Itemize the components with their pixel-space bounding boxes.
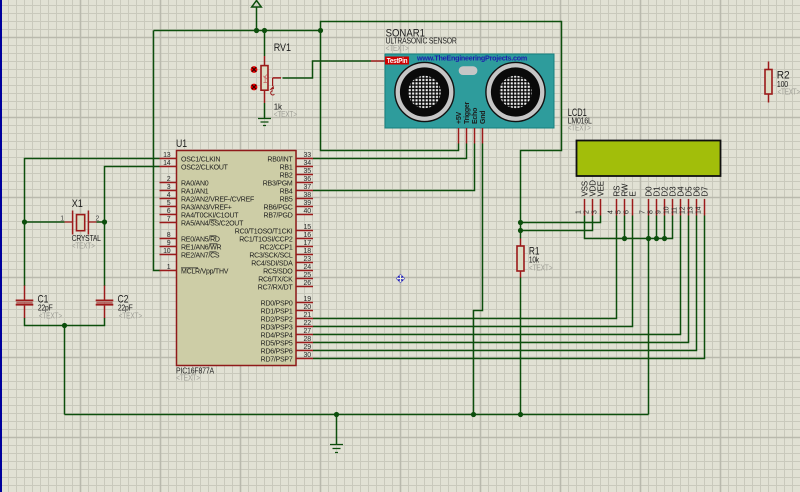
wire top rail y=30: [154, 30, 321, 32]
junction rail/ground symbol: [334, 412, 339, 417]
wire MCLR pull-up x=153: [154, 31, 161, 271]
svg-text:<TEXT>: <TEXT>: [568, 124, 591, 133]
U1 pin 39 RB6/PGC: [264, 200, 313, 212]
svg-text:36: 36: [304, 176, 312, 183]
svg-text:RA1/AN1: RA1/AN1: [181, 189, 209, 196]
LCD pin 12 D5: [680, 186, 694, 216]
svg-text:8: 8: [167, 232, 171, 239]
svg-text:RA4/T0CKI/C1OUT: RA4/T0CKI/C1OUT: [181, 213, 239, 220]
svg-text:30: 30: [304, 352, 312, 359]
U1 pin 22 RD3/PSP3: [261, 320, 313, 332]
sonar right transducer: [486, 62, 545, 121]
LCD pin 11 D4: [672, 186, 686, 216]
U1 pin 21 RD2/PSP2: [261, 312, 313, 324]
svg-text:OSC1/CLKIN: OSC1/CLKIN: [181, 157, 220, 164]
LCD pin 9 D2: [656, 186, 670, 216]
junction gnd bus RW: [622, 236, 627, 241]
svg-text:+5V: +5V: [456, 112, 463, 124]
svg-text:5: 5: [616, 210, 623, 214]
svg-text:RC0/T1OSO/T1CKI: RC0/T1OSO/T1CKI: [235, 229, 293, 236]
svg-text:RV1: RV1: [274, 42, 291, 54]
wire VEE to supply node: [521, 216, 601, 223]
capacitor C1: [16, 286, 34, 319]
junction supply VDD: [518, 228, 523, 233]
junction dot rail/power: [254, 28, 259, 33]
svg-text:VEE: VEE: [597, 181, 606, 196]
svg-text:18: 18: [304, 248, 312, 255]
U1 pin 8 RE0/AN5/RD: [160, 232, 220, 244]
sonar oscillator pill: [459, 66, 478, 75]
svg-text:25: 25: [304, 272, 312, 279]
svg-text:3: 3: [167, 184, 171, 191]
svg-text:24: 24: [304, 264, 312, 271]
potentiometer RV1: [261, 56, 281, 103]
svg-text:<TEXT>: <TEXT>: [778, 88, 800, 97]
ground symbol bottom center: [330, 415, 343, 453]
svg-text:19: 19: [304, 296, 312, 303]
svg-text:15: 15: [304, 224, 312, 231]
wire Trigger to RB0: [313, 144, 467, 159]
svg-text:34: 34: [304, 160, 312, 167]
svg-text:1: 1: [576, 210, 583, 214]
wire +5V supply to sonar: [321, 31, 459, 151]
U1 pin 29 RD6/PSP6: [261, 344, 313, 356]
U1 pin 5 RA3/AN3/VREF+: [160, 200, 232, 212]
svg-text:U1: U1: [176, 138, 187, 150]
U1 pin 25 RC6/TX/CK: [258, 272, 313, 284]
svg-text:RC4/SDI/SDA: RC4/SDI/SDA: [251, 261, 293, 268]
svg-text:RE1/AN6/WR: RE1/AN6/WR: [181, 245, 221, 252]
wire ground rail bottom: [65, 414, 649, 416]
svg-text:20: 20: [304, 304, 312, 311]
svg-text:2: 2: [167, 176, 171, 183]
junction supply VEE: [518, 220, 523, 225]
svg-text:26: 26: [304, 280, 312, 287]
svg-text:7: 7: [640, 210, 647, 214]
wire VDD to supply node: [521, 216, 593, 231]
svg-text:MCLR/Vpp/THV: MCLR/Vpp/THV: [181, 269, 229, 276]
junction gnd bus D0: [646, 236, 651, 241]
svg-text:Echo: Echo: [472, 108, 479, 124]
wire D7 to RD7 pin30: [313, 216, 705, 359]
U1 pin 2 RA0/AN0: [160, 176, 209, 188]
ground RV1: [258, 119, 271, 126]
svg-text:9: 9: [167, 240, 171, 247]
pin stub TestPin: [371, 60, 385, 62]
svg-text:39: 39: [304, 200, 312, 207]
svg-text:RB3/PGM: RB3/PGM: [263, 181, 293, 188]
resistor R2: [765, 62, 772, 103]
sonar pin stub Trigger: [466, 128, 468, 144]
U1 pin 27 RD4/PSP4: [261, 328, 313, 340]
U1 pin 36 RB3/PGM: [263, 176, 313, 188]
U1 pin 30 RD7/PSP7: [261, 352, 313, 364]
junction rail/sonar gnd: [471, 412, 476, 417]
svg-text:<TEXT>: <TEXT>: [39, 312, 63, 321]
wire D5 to RD5 pin28: [313, 216, 689, 343]
svg-text:E: E: [629, 191, 638, 196]
U1 pin 9 RE1/AN6/WR: [160, 240, 222, 252]
U1 pin 24 RC5/SDO: [263, 264, 313, 276]
svg-text:21: 21: [304, 312, 312, 319]
svg-text:RC5/SDO: RC5/SDO: [263, 269, 293, 276]
U1 pin 6 RA4/T0CKI/C1OUT: [160, 208, 240, 220]
wire RV1 top from rail: [264, 31, 266, 57]
LCD pin 1 VSS: [576, 181, 590, 215]
svg-text:12: 12: [680, 206, 687, 214]
U1 pin 28 RD5/PSP5: [261, 336, 313, 348]
svg-text:RC3/SCK/SCL: RC3/SCK/SCL: [249, 253, 293, 260]
svg-text:6: 6: [624, 210, 631, 214]
svg-text:RD3/PSP3: RD3/PSP3: [261, 325, 293, 332]
wire D2 to gnd bus: [664, 216, 666, 239]
LCD pin 10 D3: [664, 186, 678, 216]
wire C1 C2 bottoms joined: [25, 318, 105, 326]
svg-text:RB4: RB4: [280, 189, 293, 196]
svg-text:<TEXT>: <TEXT>: [529, 264, 553, 273]
svg-text:6: 6: [167, 208, 171, 215]
svg-text:RD5/PSP5: RD5/PSP5: [261, 341, 293, 348]
svg-text:27: 27: [304, 328, 312, 335]
LCD pin 8 D1: [648, 186, 662, 216]
sonar pin stub +5V: [458, 128, 460, 144]
svg-text:RC1/T1OSI/CCP2: RC1/T1OSI/CCP2: [239, 237, 293, 244]
svg-text:9: 9: [656, 210, 663, 214]
wire sonar Gnd to rail: [474, 144, 483, 415]
svg-text:13: 13: [688, 206, 695, 214]
svg-text:14: 14: [163, 160, 171, 167]
wire OSC1 pin13 to crystal/C1: [25, 159, 160, 223]
LCD pin 7 D0: [640, 186, 654, 216]
svg-text:17: 17: [304, 240, 312, 247]
U1 pin 18 RC3/SCK/SCL: [249, 248, 313, 260]
svg-text:www.TheEngineeringProjects.com: www.TheEngineeringProjects.com: [416, 56, 527, 63]
svg-text:40: 40: [304, 208, 312, 215]
power symbol +5V arrow: [252, 1, 262, 31]
svg-text:2: 2: [584, 210, 591, 214]
U1 pin 15 RC0/T1OSO/T1CKI: [235, 224, 313, 236]
U1 pin 4 RA2/AN2/VREF-/CVREF: [160, 192, 255, 204]
U1 pin 1 MCLR/Vpp/THV: [160, 264, 229, 276]
sonar pin stub Echo: [474, 128, 476, 144]
wire D6 to RD6 pin29: [313, 216, 697, 351]
svg-text:<TEXT>: <TEXT>: [72, 242, 95, 251]
wire RS to RD2 pin21: [313, 216, 617, 319]
svg-text:RB1: RB1: [280, 165, 293, 172]
U1 pin 13 OSC1/CLKIN: [160, 152, 221, 164]
svg-text:4: 4: [608, 210, 615, 214]
svg-text:RC6/TX/CK: RC6/TX/CK: [258, 277, 293, 284]
svg-text:13: 13: [163, 152, 171, 159]
wire VSS to gnd bus: [585, 216, 673, 239]
svg-text:RD7/PSP7: RD7/PSP7: [261, 357, 293, 364]
svg-text:11: 11: [672, 207, 679, 214]
svg-text:RB2: RB2: [280, 173, 293, 180]
U1 pin 16 RC1/T1OSI/CCP2: [239, 232, 313, 244]
svg-text:TestPin: TestPin: [387, 58, 408, 65]
U1 pin 19 RD0/PSP0: [261, 296, 313, 308]
svg-text:<TEXT>: <TEXT>: [119, 312, 143, 321]
svg-text:Trigger: Trigger: [464, 101, 471, 124]
resistor R1: [517, 239, 524, 278]
svg-text:<TEXT>: <TEXT>: [176, 373, 200, 382]
svg-text:RD1/PSP1: RD1/PSP1: [261, 309, 293, 316]
U1 pin 20 RD1/PSP1: [261, 304, 313, 316]
svg-text:35: 35: [304, 168, 312, 175]
U1 pin 26 RC7/RX/DT: [258, 280, 313, 292]
svg-text:38: 38: [304, 192, 312, 199]
U1 pin 33 RB0/INT: [267, 152, 313, 164]
svg-text:RB6/PGC: RB6/PGC: [264, 205, 293, 212]
RV1 terminal marker bottom: [251, 84, 258, 91]
U1 pin 37 RB4: [280, 184, 313, 196]
origin cursor blue diamond: [396, 274, 405, 283]
svg-text:5: 5: [167, 200, 171, 207]
svg-text:33: 33: [304, 152, 312, 159]
svg-text:8: 8: [648, 210, 655, 214]
wire crystal left down to C1: [24, 222, 26, 286]
crystal X1: [25, 211, 105, 235]
svg-text:X1: X1: [72, 198, 83, 210]
svg-text:RB5: RB5: [280, 197, 293, 204]
svg-text:RD0/PSP0: RD0/PSP0: [261, 301, 293, 308]
U1 pin 7 RA5/AN4/SS/C2OUT: [160, 216, 245, 228]
overline marks on U1 labels: [181, 220, 217, 268]
wire down to ground rail left: [64, 326, 66, 415]
svg-text:<TEXT>: <TEXT>: [274, 110, 297, 119]
svg-text:14: 14: [696, 206, 703, 214]
svg-text:22: 22: [304, 320, 312, 327]
svg-text:3: 3: [592, 210, 599, 214]
U1 pin 14 OSC2/CLKOUT: [160, 160, 229, 172]
LCD pin 3 VEE: [592, 181, 606, 215]
wire OSC2 pin14 to crystal/C2: [105, 167, 160, 223]
wire E to RD3 pin22: [313, 216, 633, 327]
LCD pin 13 D6: [688, 186, 702, 216]
LCD pin 6 E: [624, 191, 638, 215]
junction gnd bus D2: [662, 236, 667, 241]
svg-text:RC2/CCP1: RC2/CCP1: [260, 245, 293, 252]
svg-text:28: 28: [304, 336, 312, 343]
wire RV1 bottom to ground: [264, 103, 266, 118]
U1 pin 40 RB7/PGD: [264, 208, 313, 220]
svg-text:RB0/INT: RB0/INT: [267, 157, 293, 164]
U1 pin 23 RC4/SDI/SDA: [251, 256, 313, 268]
wire D4 to RD4 pin27: [313, 216, 681, 335]
LCD pin 14 D7: [696, 186, 710, 216]
wire D0 down to ground rail: [648, 216, 650, 415]
svg-text:10: 10: [664, 206, 671, 214]
wire RW down to gnd bus: [624, 216, 626, 239]
svg-text:29: 29: [304, 344, 312, 351]
wire R1 bottom to rail: [520, 278, 522, 415]
op chip U1 body PIC16F877A: [177, 151, 297, 366]
RV1 terminal marker top: [251, 66, 258, 73]
svg-text:RE0/AN5/RD: RE0/AN5/RD: [181, 237, 220, 244]
svg-text:1: 1: [60, 216, 64, 223]
LCD pin 2 VDD: [584, 180, 598, 216]
svg-text:RB7/PGD: RB7/PGD: [264, 213, 293, 220]
U1 pin 3 RA1/AN1: [160, 184, 209, 196]
svg-text:RA3/AN3/VREF+: RA3/AN3/VREF+: [181, 205, 232, 212]
sonar TestPin red box: [385, 57, 409, 66]
LCD pin 5 RW: [616, 183, 630, 215]
svg-text:RE2/AN7/CS: RE2/AN7/CS: [181, 253, 220, 260]
svg-text:1: 1: [167, 264, 171, 271]
wire D1 to gnd bus: [656, 216, 658, 239]
wire RV1 wiper to TestPin: [283, 61, 372, 78]
junction rail/R1: [518, 412, 523, 417]
svg-text:10: 10: [163, 248, 171, 255]
junction caps ground: [62, 323, 67, 328]
junction dot rail x=320: [318, 28, 323, 33]
wire Echo to RB4: [313, 144, 475, 191]
wire crystal right down to C2: [104, 222, 106, 286]
svg-text:16: 16: [304, 232, 312, 239]
svg-text:2: 2: [96, 216, 100, 223]
svg-text:23: 23: [304, 256, 312, 263]
svg-text:RA5/AN4/SS/C2OUT: RA5/AN4/SS/C2OUT: [181, 221, 244, 228]
LCD pin 4 RS: [608, 186, 622, 216]
svg-text:Gnd: Gnd: [480, 111, 487, 124]
svg-text:RD4/PSP4: RD4/PSP4: [261, 333, 293, 340]
junction dot rail/RV1: [262, 28, 267, 33]
svg-text:OSC2/CLKOUT: OSC2/CLKOUT: [181, 165, 229, 172]
junction crystal right: [102, 219, 107, 224]
ultrasonic sensor SONAR1 body: [385, 54, 554, 128]
junction gnd bus D1: [654, 236, 659, 241]
svg-text:RD6/PSP6: RD6/PSP6: [261, 349, 293, 356]
sonar left transducer: [395, 62, 454, 121]
svg-text:<TEXT>: <TEXT>: [386, 44, 409, 53]
svg-text:7: 7: [167, 216, 171, 223]
capacitor C2: [96, 286, 114, 319]
svg-text:RC7/RX/DT: RC7/RX/DT: [258, 285, 294, 292]
svg-text:RA2/AN2/VREF-/CVREF: RA2/AN2/VREF-/CVREF: [181, 197, 254, 204]
svg-text:37: 37: [304, 184, 312, 191]
wire supply to LCD/R1 (over sonar): [321, 22, 562, 239]
svg-text:RD2/PSP2: RD2/PSP2: [261, 317, 293, 324]
LCD LM016L screen: [577, 141, 721, 177]
U1 pin 38 RB5: [280, 192, 313, 204]
sonar pin stub Gnd: [482, 128, 484, 144]
U1 pin 17 RC2/CCP1: [260, 240, 313, 252]
junction crystal left: [22, 219, 27, 224]
svg-text:4: 4: [167, 192, 171, 199]
U1 pin 35 RB2: [280, 168, 313, 180]
svg-text:D7: D7: [701, 186, 710, 197]
U1 pin 10 RE2/AN7/CS: [160, 248, 220, 260]
U1 pin 34 RB1: [280, 160, 313, 172]
svg-text:RA0/AN0: RA0/AN0: [181, 181, 209, 188]
